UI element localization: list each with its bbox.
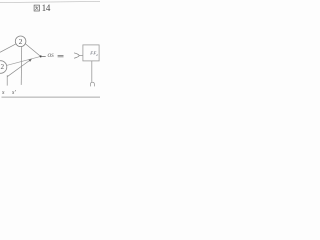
svg-text:2: 2 [1, 63, 5, 71]
fork connector symbol at flip-flop input [74, 53, 79, 58]
wire: s-prime input vertical line from circle 1 bottom [20, 47, 23, 85]
svg-text:2: 2 [19, 37, 23, 46]
wire: neuron circle 1 to junction dot [25, 44, 40, 57]
title 図 glyph (drawn box-with-X kanji) [34, 5, 39, 11]
wire: vertical line below flip-flop box [91, 61, 93, 82]
wire: neuron circle 2 to junction dot [7, 56, 41, 65]
top page-edge scan line [0, 1, 100, 2]
flip-flop box FF2 [83, 45, 99, 61]
junction dot (node) [40, 55, 42, 57]
equals sign [58, 54, 64, 57]
bottom page-edge scan line [2, 96, 101, 98]
neuron circle 1 [15, 36, 26, 47]
connector horseshoe symbol below box [90, 82, 94, 86]
svg-text:4: 4 [46, 3, 51, 13]
arrow from s line toward summing wire [7, 60, 30, 77]
wire: fork to flip-flop box [79, 55, 83, 57]
svg-text:s: s [2, 89, 5, 96]
neuron circle 2 (clipped at left edge) [0, 61, 7, 74]
svg-text:OS: OS [48, 53, 55, 59]
svg-text:s′: s′ [12, 89, 16, 96]
wire: stub from junction dot to OS label [41, 55, 46, 57]
wire: s input vertical line [6, 75, 8, 85]
wire: input line from left edge to neuron circle 1 [0, 44, 16, 53]
svg-text:2: 2 [96, 53, 98, 57]
